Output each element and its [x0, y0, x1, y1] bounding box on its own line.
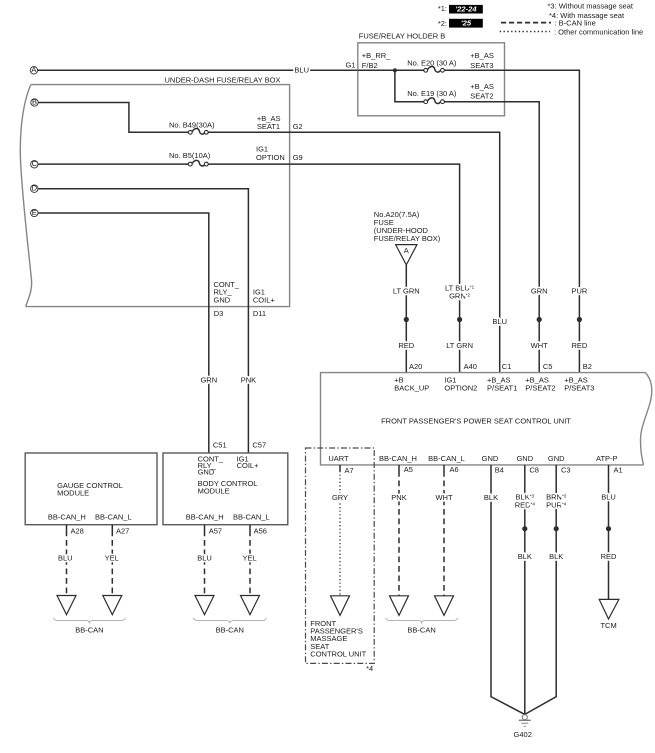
wire A20 column LT GRN / RED [393, 265, 420, 373]
svg-text:GND: GND [482, 454, 499, 463]
pin D3 label CONT_RLY_GND [214, 280, 240, 318]
svg-text:RED: RED [571, 341, 587, 350]
svg-text:BLU: BLU [58, 553, 73, 562]
svg-text:C: C [32, 159, 38, 168]
svg-text:PUR*4: PUR*4 [546, 501, 567, 510]
wire GND B4 BLK to G402 [484, 465, 525, 715]
fuse B49 (30A) [169, 121, 215, 135]
svg-text:LT GRN: LT GRN [393, 287, 420, 296]
svg-text:OPTION: OPTION [256, 153, 285, 162]
wire A BLU to G1 [38, 61, 358, 75]
svg-text:B: B [32, 97, 37, 106]
pin label +B BACK_UP [394, 375, 429, 392]
svg-text:G402: G402 [514, 730, 532, 739]
svg-text:SEAT3: SEAT3 [470, 61, 493, 70]
arrow body BB-CAN H [195, 596, 214, 615]
junction dot B2 column [577, 317, 582, 322]
svg-text:A27: A27 [116, 526, 129, 535]
svg-text:+B_AS: +B_AS [470, 51, 494, 60]
wire A28 BLU dashed [58, 525, 73, 596]
legend B-CAN line sample [501, 18, 596, 27]
svg-text:A28: A28 [71, 526, 84, 535]
wire C to fuse B5 [38, 163, 188, 165]
wire +B_AS SEAT1 G2 to C1 column [208, 114, 507, 373]
svg-text:C1: C1 [502, 362, 512, 371]
svg-text:P/SEAT3: P/SEAT3 [564, 383, 594, 392]
wire +B_AS SEAT2 to C5 column GRN [444, 82, 548, 373]
svg-text:BLU: BLU [492, 317, 507, 326]
svg-text:PNK: PNK [241, 375, 256, 384]
wire A57 BLU dashed [197, 525, 212, 596]
body control module box [163, 453, 288, 525]
svg-text:BLU: BLU [294, 66, 309, 75]
pin label +B_AS P/SEAT1 [487, 375, 517, 392]
wire ATP-P BLU/RED to TCM [601, 465, 617, 600]
svg-text:COIL+: COIL+ [237, 461, 260, 470]
wire A27 YEL dashed [105, 525, 119, 596]
pin label +B_AS P/SEAT3 [564, 375, 594, 392]
svg-text:C5: C5 [543, 362, 553, 371]
svg-text:WHT: WHT [531, 341, 548, 350]
wire B to fuse B49 [38, 103, 188, 133]
svg-text:BLK: BLK [484, 493, 498, 502]
svg-text:A5: A5 [404, 465, 413, 474]
svg-text:BB-CAN_L: BB-CAN_L [233, 512, 270, 521]
svg-text:A: A [31, 65, 36, 74]
svg-text:A57: A57 [209, 526, 222, 535]
wire D to D11 column [38, 189, 248, 453]
svg-text:BB-CAN: BB-CAN [216, 625, 244, 634]
wire E to D3 column [38, 213, 209, 453]
svg-text:E: E [32, 208, 37, 217]
svg-text:GND: GND [516, 454, 533, 463]
svg-text:B2: B2 [583, 362, 592, 371]
fuse A20 under-hood label [374, 210, 441, 243]
svg-text:FRONT PASSENGER'S POWER SEAT C: FRONT PASSENGER'S POWER SEAT CONTROL UNI… [381, 417, 571, 426]
svg-text:ATP-P: ATP-P [596, 454, 618, 463]
svg-text:F/B2: F/B2 [362, 61, 378, 70]
svg-text:SEAT2: SEAT2 [470, 92, 493, 101]
svg-text:GRN: GRN [200, 375, 217, 384]
svg-text:MODULE: MODULE [198, 487, 230, 496]
pin D11 label IG1 COIL+ [253, 288, 276, 318]
svg-text:A: A [404, 246, 409, 255]
svg-text:BB-CAN_H: BB-CAN_H [379, 454, 417, 463]
wire A56 YEL dashed [243, 525, 257, 596]
pin label +B_AS P/SEAT2 [525, 375, 555, 392]
svg-text:RED: RED [601, 552, 617, 561]
junction dot holder B [393, 68, 397, 72]
arrow gauge BB-CAN L [103, 596, 122, 615]
svg-text:RED: RED [398, 341, 414, 350]
wire down from junction to E19 row [395, 70, 424, 101]
arrow BB-CAN H [390, 596, 409, 616]
node E connector circle [31, 208, 38, 217]
svg-text:BLK: BLK [518, 552, 532, 561]
svg-text:PUR: PUR [571, 287, 587, 296]
fuse E20 (30 A) [407, 58, 457, 72]
node A connector circle [30, 65, 37, 74]
svg-text:D11: D11 [253, 309, 266, 318]
svg-text:D3: D3 [214, 309, 224, 318]
svg-text:*3: Without massage seat: *3: Without massage seat [548, 1, 634, 10]
svg-text:TCM: TCM [600, 621, 616, 630]
svg-text:C51: C51 [213, 440, 227, 449]
svg-text:+B_AS: +B_AS [470, 82, 494, 91]
legend version mark *1 '22-24 [438, 4, 483, 14]
svg-text:BB-CAN_H: BB-CAN_H [48, 512, 86, 521]
legend other communication line sample [500, 28, 644, 37]
brace BB-CAN body [193, 618, 266, 623]
svg-text:BB-CAN_L: BB-CAN_L [428, 454, 465, 463]
brace BB-CAN power seat [386, 618, 458, 623]
svg-text:*1:: *1: [438, 4, 447, 13]
svg-text:BLU: BLU [601, 493, 616, 502]
svg-text:G9: G9 [293, 153, 303, 162]
node B connector circle [31, 97, 38, 106]
fuse B5 (10A) [169, 151, 211, 166]
svg-text:GRN*2: GRN*2 [449, 292, 470, 301]
svg-text:SEAT1: SEAT1 [257, 122, 280, 131]
fuse A20 triangle symbol [396, 245, 417, 265]
arrow body BB-CAN L [241, 596, 260, 615]
front passenger's power seat control unit box [321, 373, 652, 465]
brace BB-CAN gauge [54, 618, 126, 623]
svg-text:C3: C3 [561, 465, 571, 474]
front passenger's massage seat control unit dashed box [306, 448, 375, 673]
fuse/relay holder B box [358, 31, 505, 115]
holder B internal label +B_RR_ F/B2 [362, 51, 391, 70]
svg-text:A6: A6 [450, 465, 459, 474]
node C connector circle [31, 159, 38, 168]
svg-text:P/SEAT1: P/SEAT1 [487, 383, 517, 392]
svg-text:UART: UART [328, 454, 349, 463]
svg-text:C57: C57 [252, 440, 266, 449]
junction dot A40 column [457, 317, 462, 322]
svg-text:UNDER-DASH FUSE/RELAY BOX: UNDER-DASH FUSE/RELAY BOX [165, 75, 281, 84]
svg-text:BLK: BLK [549, 552, 563, 561]
svg-text:GRN: GRN [531, 287, 548, 296]
gauge control module box [25, 453, 157, 525]
wire UART GRY dotted to massage unit arrow [332, 465, 348, 596]
svg-text:BB-CAN: BB-CAN [75, 625, 103, 634]
svg-text:WHT: WHT [435, 493, 452, 502]
svg-text:G2: G2 [293, 122, 303, 131]
svg-text:A56: A56 [254, 526, 267, 535]
svg-text:*4: *4 [366, 664, 373, 673]
arrow gauge BB-CAN H [57, 596, 76, 615]
svg-text:B4: B4 [495, 465, 504, 474]
svg-text:BLU: BLU [197, 553, 212, 562]
wire BB-CAN_H PNK dashed [391, 465, 406, 596]
svg-text:A7: A7 [345, 466, 354, 475]
svg-text:OPTION2: OPTION2 [444, 383, 477, 392]
arrow TCM [599, 599, 619, 619]
wire GND C3 BRN*3 PUR*4 to G402 [525, 465, 567, 715]
svg-text:FUSE/RELAY BOX): FUSE/RELAY BOX) [374, 234, 441, 243]
fuse E19 (30 A) [407, 89, 457, 104]
svg-text:PNK: PNK [391, 493, 406, 502]
junction dot A20 column [404, 317, 409, 322]
junction dot C5 column [537, 317, 542, 322]
svg-text:C8: C8 [529, 465, 539, 474]
svg-text:'25: '25 [461, 19, 472, 28]
wire +B_AS SEAT3 to B2 column PUR [444, 51, 587, 373]
svg-text:BACK_UP: BACK_UP [394, 383, 429, 392]
svg-text:A40: A40 [464, 362, 477, 371]
wire IG1 OPTION G9 to A40 column [208, 145, 474, 373]
svg-text:D: D [32, 184, 38, 193]
svg-text:RED*4: RED*4 [515, 501, 536, 510]
svg-text:BB-CAN_H: BB-CAN_H [186, 512, 224, 521]
svg-text:BB-CAN_L: BB-CAN_L [95, 512, 132, 521]
svg-text:BB-CAN: BB-CAN [407, 625, 435, 634]
svg-text:P/SEAT2: P/SEAT2 [525, 383, 555, 392]
junction dot C3 column [554, 526, 559, 531]
svg-text:: Other communication line: : Other communication line [554, 28, 643, 37]
svg-text:+B_RR_: +B_RR_ [362, 51, 391, 60]
junction dot C8 column [522, 526, 527, 531]
ground G402 [514, 715, 532, 740]
svg-text:'22-24: '22-24 [455, 5, 477, 14]
svg-text:COIL+: COIL+ [253, 295, 276, 304]
svg-text:No. B49(30A): No. B49(30A) [169, 121, 215, 130]
pin label IG1 OPTION2 [444, 375, 477, 392]
svg-text:CONTROL UNIT: CONTROL UNIT [310, 649, 366, 658]
svg-text:YEL: YEL [105, 553, 119, 562]
wire BB-CAN_L WHT dashed [435, 465, 452, 596]
under-dash fuse/relay box [20, 75, 289, 306]
svg-text:LT GRN: LT GRN [446, 341, 473, 350]
wire G1 row inside holder [358, 69, 424, 71]
legend version mark *2 '25 [438, 19, 483, 28]
svg-text:*2:: *2: [438, 19, 447, 28]
arrow BB-CAN L [435, 596, 454, 616]
svg-text:GND: GND [198, 468, 215, 477]
svg-text:No. E19 (30 A): No. E19 (30 A) [407, 89, 457, 98]
svg-text:GND: GND [548, 454, 565, 463]
svg-text:MODULE: MODULE [57, 488, 89, 497]
svg-text:GRY: GRY [332, 493, 348, 502]
arrow to massage unit [331, 596, 350, 616]
svg-text:G1: G1 [345, 61, 355, 70]
junction dot A1 column [606, 526, 611, 531]
svg-text:GND: GND [214, 295, 231, 304]
svg-text:YEL: YEL [243, 553, 257, 562]
svg-text:A20: A20 [409, 362, 422, 371]
wire GND C8 BLK*3 RED*4 to G402 [515, 465, 536, 715]
node D connector circle [31, 184, 38, 193]
svg-text:FUSE/RELAY HOLDER B: FUSE/RELAY HOLDER B [359, 31, 445, 40]
svg-text:No. B5(10A): No. B5(10A) [169, 151, 211, 160]
svg-text:: B-CAN line: : B-CAN line [555, 18, 596, 27]
svg-text:A1: A1 [614, 465, 623, 474]
